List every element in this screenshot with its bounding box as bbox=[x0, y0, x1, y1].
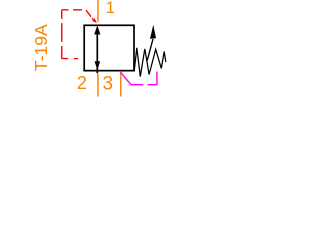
svg-text:3: 3 bbox=[103, 73, 114, 94]
svg-text:2: 2 bbox=[77, 73, 87, 93]
svg-text:1: 1 bbox=[106, 0, 115, 17]
svg-text:T-19A: T-19A bbox=[31, 24, 51, 71]
